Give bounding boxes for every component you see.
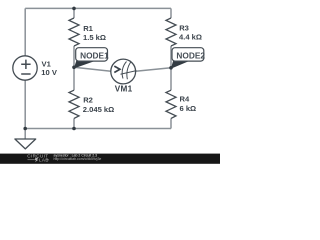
svg-text:V1: V1 — [42, 60, 52, 69]
svg-text:NODE2: NODE2 — [176, 50, 205, 60]
junction dot bottom middle — [72, 127, 76, 131]
wire middle branch R2 to bottom — [73, 118, 75, 128]
svg-text:VM1: VM1 — [115, 85, 133, 94]
wire right branch R3 to node2 junction — [170, 46, 172, 68]
node NODE2 label tail — [171, 59, 191, 69]
svg-text:4.4 kΩ: 4.4 kΩ — [179, 32, 202, 41]
svg-text:NODE1: NODE1 — [80, 50, 109, 60]
V1 value labels — [41, 60, 58, 78]
junction dot bottom left — [23, 127, 27, 131]
svg-text:6 kΩ: 6 kΩ — [180, 104, 197, 113]
wire middle branch node1 to R2 — [73, 67, 75, 90]
wire left vertical upper (top wire to V1 top) — [24, 8, 26, 56]
junction dot top middle — [72, 7, 76, 11]
svg-text:10 V: 10 V — [41, 68, 58, 77]
svg-text:R2: R2 — [83, 95, 93, 104]
resistor R4 value labels — [180, 94, 197, 113]
resistor R1 value labels — [83, 24, 106, 42]
resistor R4 — [166, 90, 176, 118]
wire voltmeter right to node2 — [136, 68, 171, 72]
resistor R3 — [166, 18, 176, 46]
wire bottom horizontal — [25, 128, 171, 130]
svg-text:R1: R1 — [83, 24, 93, 33]
resistor R2 value labels — [83, 95, 114, 113]
wire right branch upper stub (top wire to R3) — [170, 8, 172, 18]
voltmeter VM1 — [111, 59, 137, 84]
svg-text:1.5 kΩ: 1.5 kΩ — [83, 33, 106, 42]
wire node1 to voltmeter left — [74, 67, 111, 71]
resistor R3 value labels — [179, 23, 202, 41]
wire right branch R4 to bottom — [170, 118, 172, 128]
voltage source V1 — [13, 56, 37, 80]
wire top horizontal — [25, 7, 171, 9]
CircuitLab logo — [27, 154, 49, 163]
svg-text:LAB: LAB — [39, 158, 49, 163]
svg-text:R4: R4 — [180, 94, 190, 103]
node NODE1 label tail — [74, 59, 97, 68]
wire right branch node2 to R4 — [170, 68, 172, 90]
wire left vertical lower (V1 bottom to bottom wire) — [24, 80, 26, 128]
watermark banner — [0, 154, 220, 164]
node NODE1 label box — [76, 48, 108, 61]
wire middle branch R1 to node1 junction — [73, 46, 75, 67]
resistor R1 — [69, 18, 79, 46]
junction dot node1 — [72, 66, 76, 70]
wire middle branch upper stub (top wire to R1) — [73, 8, 75, 18]
junction dot node2 — [169, 66, 173, 70]
resistor R2 — [69, 90, 79, 118]
ground — [15, 129, 36, 149]
node NODE2 label box — [172, 48, 204, 61]
svg-text:http://circuitlab.com/c/dk59vj: http://circuitlab.com/c/dk59vj3e — [54, 157, 102, 161]
svg-text:2.045 kΩ: 2.045 kΩ — [83, 105, 114, 114]
svg-text:R3: R3 — [179, 23, 189, 32]
